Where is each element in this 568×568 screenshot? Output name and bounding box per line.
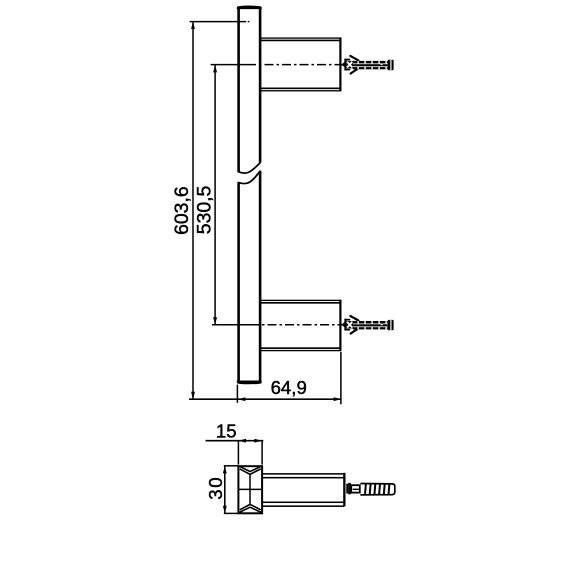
svg-text:64,9: 64,9 bbox=[271, 377, 307, 398]
svg-text:15: 15 bbox=[216, 421, 237, 442]
svg-text:603,6: 603,6 bbox=[171, 186, 193, 235]
svg-text:530,5: 530,5 bbox=[194, 186, 216, 235]
svg-text:30: 30 bbox=[205, 476, 226, 500]
